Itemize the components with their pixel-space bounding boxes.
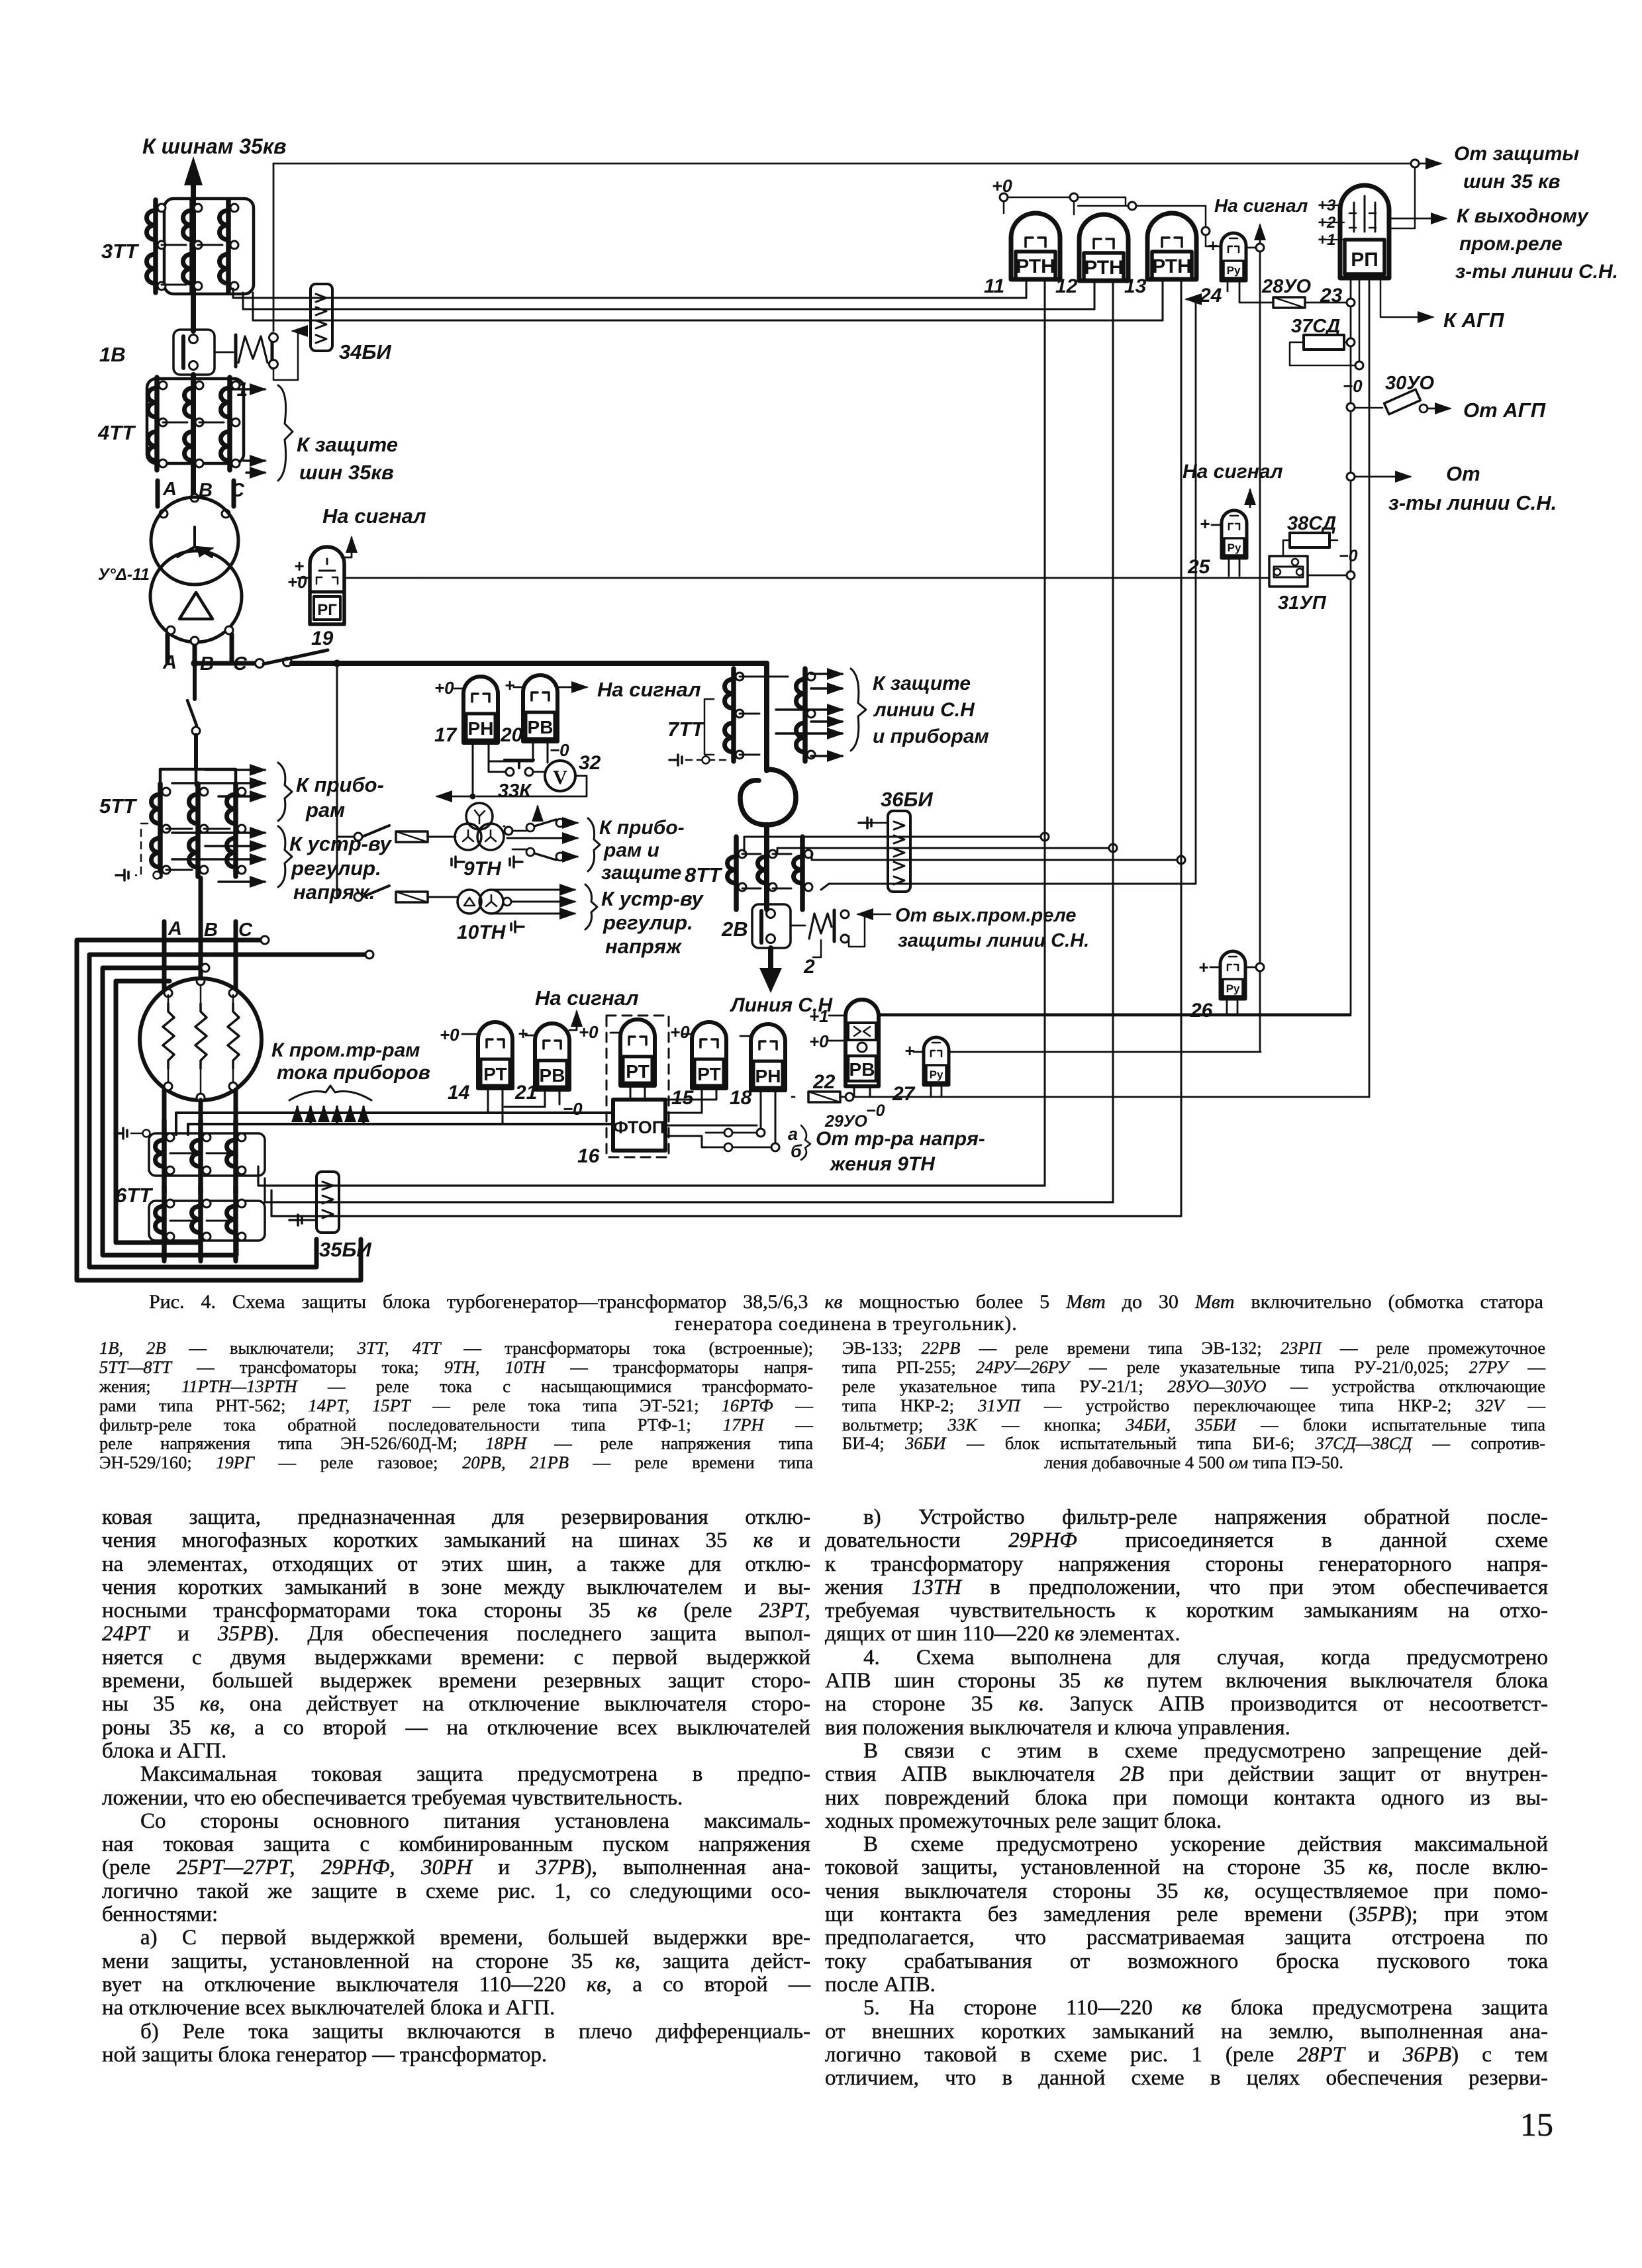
- phase stubs A B C above transformer: [158, 481, 234, 518]
- svg-text:РП: РП: [1351, 249, 1378, 271]
- svg-text:−0: −0: [1343, 376, 1363, 396]
- svg-text:+0: +0: [809, 1031, 829, 1051]
- ground of 5TT secondary (dashed): [116, 824, 161, 880]
- voltage transformer 10TN: [354, 886, 503, 914]
- current relay RTN (13): [1147, 213, 1196, 1216]
- svg-text:22: 22: [812, 1071, 836, 1093]
- indicating relay RU (25): [1212, 510, 1247, 576]
- body text right column: [825, 1506, 1548, 2090]
- svg-text:30УО: 30УО: [1385, 373, 1435, 394]
- svg-text:−0: −0: [563, 1099, 583, 1119]
- svg-text:В: В: [204, 920, 218, 941]
- svg-text:РТ: РТ: [483, 1064, 507, 1084]
- svg-text:К прибо-: К прибо-: [296, 773, 384, 796]
- wire: branch to voltage transformers 9TN/10TN: [334, 660, 341, 898]
- power transformer (star winding): [151, 497, 238, 585]
- intermediate relay RP (23): [1340, 185, 1389, 278]
- svg-text:К прибо-: К прибо-: [599, 817, 685, 839]
- wire: RU24/26 vertical lower part to relay 27 line: [1259, 971, 1261, 1052]
- current relay RTN (12): [1079, 214, 1128, 1202]
- feeder continues: [764, 825, 769, 908]
- wire: measuring circuit arrow left: [437, 796, 473, 798]
- svg-text:31УП: 31УП: [1278, 592, 1327, 614]
- svg-text:От: От: [1446, 462, 1480, 485]
- transformer 7TT: [725, 663, 816, 771]
- time relay RV (21): [505, 1012, 577, 1107]
- switching device 31UP: [1269, 556, 1355, 587]
- svg-text:А: А: [162, 479, 177, 500]
- test block 34BI: [311, 284, 332, 351]
- svg-text:15: 15: [671, 1087, 695, 1109]
- svg-text:На сигнал: На сигнал: [322, 504, 426, 528]
- svg-text:32: 32: [579, 752, 601, 774]
- svg-text:РТН: РТН: [1084, 257, 1124, 279]
- svg-text:С: С: [238, 920, 253, 941]
- wire: 35 kV feeder with arrow up: [184, 156, 203, 331]
- svg-text:+: +: [1200, 514, 1210, 534]
- svg-text:б: б: [791, 1141, 802, 1161]
- svg-text:РН: РН: [468, 718, 494, 739]
- page number: [1520, 2105, 1553, 2144]
- svg-text:К защите: К защите: [873, 673, 971, 694]
- ground at 7TT (dashed): [669, 755, 728, 765]
- current relay RT (of 16): [610, 1019, 655, 1100]
- button 33K: [505, 760, 544, 776]
- wire: +0 stub to RG: [298, 577, 310, 579]
- svg-text:+0: +0: [579, 1022, 599, 1042]
- node: Линия С.Н (arrow down): [759, 948, 782, 993]
- svg-text:20: 20: [500, 724, 523, 746]
- svg-text:3ТТ: 3ТТ: [101, 240, 140, 263]
- additional resistor 37SD: [1290, 335, 1363, 369]
- wire: return of RTN coils (4th vertical): [1186, 299, 1196, 884]
- svg-text:2: 2: [803, 956, 815, 978]
- wire: 3TT secondaries to test block 34BI (3 lines): [233, 289, 1163, 320]
- transformer 5TT: [152, 784, 246, 876]
- svg-text:7ТТ: 7ТТ: [667, 718, 706, 741]
- wires: 10TN to voltage regulation (arrows): [493, 884, 597, 929]
- svg-text:К АГП: К АГП: [1443, 308, 1504, 332]
- test block 36BI: [888, 811, 910, 892]
- voltage relay RN (18): [740, 1024, 785, 1151]
- svg-text:От тр-ра напря-: От тр-ра напря-: [816, 1128, 985, 1150]
- svg-text:13: 13: [1124, 275, 1147, 297]
- svg-text:+: +: [518, 1023, 528, 1043]
- wires: 5TT to voltage regulation device (arrows): [172, 826, 292, 887]
- svg-text:рам и: рам и: [603, 839, 659, 861]
- wire: generator voltage bus (thick) to 7TT: [292, 661, 767, 666]
- svg-text:8ТТ: 8ТТ: [685, 863, 723, 886]
- svg-text:От защиты: От защиты: [1454, 143, 1579, 165]
- svg-text:V: V: [553, 767, 567, 788]
- wires: 7TT to station-service line protection (arrows + brace): [776, 669, 866, 756]
- node: От тр-ра напряжения 9ТН (label): [801, 1125, 810, 1160]
- wire: RP contact to output relay (arrow): [1389, 218, 1446, 220]
- svg-text:РГ: РГ: [317, 601, 337, 619]
- phase lines to generator: [164, 878, 237, 997]
- svg-text:23: 23: [1320, 285, 1343, 307]
- current relay RTN (11): [1011, 213, 1060, 1186]
- wires: 6TT differential leads through 35BI to RTN relays (3 long lines): [258, 1166, 1181, 1216]
- junctions of loop with phase leads: [201, 936, 373, 972]
- svg-text:5ТТ: 5ТТ: [99, 794, 138, 818]
- wire: thin line from top bus down to breaker auxiliary contact: [273, 164, 275, 331]
- disconnect switch on generator voltage bus: [195, 650, 328, 668]
- wire: to C.H. line protection (arrow): [1347, 473, 1410, 481]
- svg-text:19: 19: [311, 628, 334, 649]
- svg-text:6ТТ: 6ТТ: [115, 1184, 154, 1207]
- svg-text:+0: +0: [440, 1025, 459, 1045]
- svg-text:ФТОП: ФТОП: [613, 1117, 665, 1137]
- trip coil of 1B: [215, 334, 278, 369]
- svg-text:На сигнал: На сигнал: [597, 678, 701, 701]
- svg-text:У°Δ-11: У°Δ-11: [98, 565, 150, 584]
- svg-text:9ТН: 9ТН: [463, 858, 502, 880]
- svg-text:з-ты линии С.Н.: з-ты линии С.Н.: [1455, 261, 1618, 283]
- svg-text:шин 35 кв: шин 35 кв: [1463, 171, 1560, 193]
- bracket at 7TT: [704, 699, 714, 755]
- wire: differential loop 3: [103, 968, 236, 1255]
- phase lines below generator: [164, 1090, 236, 1121]
- svg-text:рам: рам: [305, 798, 345, 822]
- svg-text:РТ: РТ: [697, 1064, 720, 1084]
- svg-text:+0: +0: [287, 572, 307, 592]
- wires: 8TT to test block 36BI (4 lines to RTN verticals): [744, 837, 1196, 890]
- svg-text:А: А: [162, 652, 177, 673]
- additional resistor 38SD: [1283, 533, 1337, 556]
- grounds at 9TN: [452, 857, 522, 867]
- svg-text:+: +: [904, 1041, 914, 1061]
- phase stubs A B C below transformer: [167, 626, 233, 662]
- svg-text:+0: +0: [434, 678, 454, 698]
- svg-text:+: +: [1198, 957, 1208, 977]
- svg-text:РВ: РВ: [540, 1065, 565, 1086]
- svg-text:12: 12: [1055, 275, 1078, 297]
- svg-text:10ТН: 10ТН: [457, 921, 507, 943]
- figure caption: [149, 1291, 1543, 1335]
- breaker 1B: [173, 330, 215, 375]
- svg-text:К устр-ву: К устр-ву: [289, 832, 393, 855]
- svg-text:38СД: 38СД: [1287, 513, 1336, 534]
- disconnecting device 28UO (fuse): [1273, 297, 1347, 308]
- wire: 1B contact to 34BI (arrow left): [273, 331, 298, 380]
- wires: RP relay legs: [879, 278, 1433, 1097]
- wire: +0 stub (22): [829, 1040, 845, 1042]
- svg-text:РТН: РТН: [1016, 256, 1055, 277]
- wire: +0 supply to RTN relays: [992, 176, 1221, 246]
- svg-text:регулир.: регулир.: [291, 857, 381, 880]
- wire: RU24 vertical to RU26: [1259, 252, 1261, 963]
- svg-text:К защите: К защите: [297, 433, 398, 456]
- transformer 6TT (upper row): [149, 1120, 265, 1207]
- gas relay RG (19): [310, 547, 344, 624]
- voltmeter V (32): [477, 761, 587, 796]
- svg-text:напряж.: напряж.: [293, 880, 375, 904]
- svg-text:К устр-ву: К устр-ву: [601, 887, 704, 910]
- svg-text:14: 14: [448, 1082, 470, 1104]
- svg-text:+0: +0: [670, 1022, 690, 1042]
- svg-text:К выходному: К выходному: [1457, 205, 1589, 227]
- wires: 5TT to instruments (arrows): [172, 763, 292, 821]
- svg-text:35БИ: 35БИ: [319, 1238, 371, 1261]
- svg-text:33К: 33К: [498, 780, 532, 802]
- wire: top signal line to 35 kV busbar protection: [273, 160, 1441, 228]
- svg-text:На сигнал: На сигнал: [1214, 195, 1308, 216]
- svg-text:24: 24: [1199, 285, 1222, 307]
- test block 35BI: [316, 1172, 339, 1233]
- ground at 10TN: [511, 921, 524, 932]
- disconnect blade on feeder below bus: [187, 663, 200, 769]
- svg-text:РН: РН: [755, 1066, 781, 1086]
- voltage transformer 9TN: [337, 803, 504, 850]
- svg-text:РТН: РТН: [1152, 256, 1192, 277]
- svg-text:18: 18: [730, 1087, 752, 1109]
- svg-text:11: 11: [984, 275, 1004, 297]
- wires: arrows to interposing CTs of instruments: [289, 1086, 371, 1124]
- svg-text:жения 9ТН: жения 9ТН: [829, 1153, 936, 1175]
- svg-text:тока приборов: тока приборов: [277, 1062, 430, 1084]
- svg-text:От вых.пром.реле: От вых.пром.реле: [895, 905, 1077, 926]
- wires: FTOP outputs: [665, 1125, 757, 1147]
- filter FTOP: [613, 1100, 665, 1151]
- svg-text:28УО: 28УО: [1261, 276, 1312, 297]
- main feeder between 1B and transformer: [191, 375, 196, 500]
- disconnecting device 29UO (fuse): [792, 1092, 1369, 1102]
- svg-text:16: 16: [577, 1145, 600, 1167]
- svg-text:4ТТ: 4ТТ: [97, 421, 136, 444]
- wire: 6TT secondaries to measuring bus (2 lines): [176, 1113, 613, 1135]
- svg-text:+: +: [1208, 236, 1218, 256]
- ground at 36BI: [859, 818, 888, 828]
- transformer 6TT (lower row): [149, 1186, 265, 1261]
- svg-text:29УО: 29УО: [824, 1112, 867, 1131]
- wire: +1 bus from 22 to right column: [829, 1015, 1351, 1017]
- breaker 2B: [752, 904, 791, 948]
- ground at 35BI: [289, 1215, 316, 1225]
- indicating relay RU (24): [1221, 233, 1273, 303]
- svg-text:напряж: напряж: [605, 935, 683, 958]
- svg-text:+1: +1: [809, 1006, 829, 1026]
- filter-relay unit 16 (dashed box): [606, 1016, 669, 1157]
- legend right column: [842, 1339, 1545, 1472]
- svg-text:А: А: [168, 918, 182, 939]
- current relay RT (15): [665, 1022, 726, 1113]
- indicating relay RU (27): [914, 1037, 1261, 1097]
- junctions of 36BI lines with RTN verticals: [1041, 833, 1185, 864]
- wire: RG signal arrow up: [342, 538, 352, 557]
- transformer 8TT: [728, 837, 813, 910]
- wire: differential loop 4: [116, 981, 200, 1243]
- svg-text:26: 26: [1190, 1000, 1213, 1021]
- time relay RV (20): [489, 675, 587, 763]
- svg-text:защите: защите: [601, 862, 681, 884]
- svg-text:+: +: [505, 675, 514, 695]
- svg-text:РТ: РТ: [626, 1061, 649, 1082]
- svg-text:защиты линии С.Н.: защиты линии С.Н.: [898, 930, 1089, 951]
- svg-text:пром.реле: пром.реле: [1459, 233, 1563, 255]
- time relay RV (22, two-element): [845, 1000, 879, 1097]
- svg-text:17: 17: [434, 724, 458, 746]
- svg-text:линии С.Н: линии С.Н: [873, 699, 975, 721]
- wire: transformer to generator bus + junction: [191, 639, 199, 667]
- svg-text:РВ: РВ: [528, 717, 554, 737]
- wires: 9TN to instruments and protection (switch + arrows): [504, 806, 600, 871]
- wire: differential loop (outer): [77, 940, 361, 1280]
- svg-text:25: 25: [1187, 556, 1211, 578]
- power transformer (delta winding): [150, 551, 242, 642]
- svg-text:регулир.: регулир.: [603, 911, 693, 934]
- svg-text:К шинам 35кв: К шинам 35кв: [142, 134, 286, 158]
- wires: RP coil taps: [1327, 205, 1347, 240]
- svg-text:От АГП: От АГП: [1463, 399, 1546, 422]
- transformer 5TT fan-out: [160, 769, 236, 785]
- transformer 3TT (built-in CTs): [147, 199, 254, 294]
- legend left column: [99, 1339, 813, 1472]
- svg-text:36БИ: 36БИ: [881, 788, 933, 811]
- wire: differential loop 2: [89, 955, 369, 1267]
- body text left column: [102, 1506, 810, 2067]
- current relay RT (14): [462, 1022, 512, 1124]
- svg-text:РВ: РВ: [849, 1059, 875, 1080]
- wires: a/b test links from 9TN voltage transformer: [706, 1129, 771, 1151]
- indicating relay RU (26): [1210, 951, 1264, 1014]
- svg-text:и приборам: и приборам: [873, 726, 989, 747]
- wires: 4TT secondaries to 35kV busbar protection (arrows + brace): [236, 385, 293, 481]
- svg-text:шин 35кв: шин 35кв: [299, 461, 394, 484]
- svg-text:37СД: 37СД: [1291, 316, 1340, 337]
- svg-text:−0: −0: [1339, 547, 1358, 565]
- generator G: [140, 978, 262, 1102]
- voltage relay RN (17): [454, 677, 506, 800]
- svg-text:−0: −0: [866, 1102, 885, 1120]
- svg-text:27: 27: [892, 1083, 916, 1105]
- wire: gas relay RG to switching device 31UP (long): [344, 577, 1269, 579]
- ground of 6TT upper: [115, 1128, 150, 1139]
- svg-text:На сигнал: На сигнал: [535, 986, 639, 1010]
- svg-text:1В: 1В: [99, 343, 126, 366]
- wire: from output relay of C.H. line protection (arrow): [858, 914, 891, 916]
- svg-text:К пром.тр-рам: К пром.тр-рам: [271, 1039, 420, 1061]
- svg-text:з-ты линии С.Н.: з-ты линии С.Н.: [1388, 491, 1557, 514]
- svg-text:2В: 2В: [721, 918, 748, 941]
- trip coil of 2B: [791, 910, 865, 957]
- svg-text:С: С: [230, 480, 245, 501]
- svg-text:На сигнал: На сигнал: [1183, 461, 1283, 483]
- disconnecting device 30UO: [1347, 389, 1450, 414]
- svg-text:21: 21: [514, 1082, 537, 1104]
- CT loop hook on feeder: [740, 769, 796, 825]
- svg-text:−0: −0: [550, 740, 569, 760]
- transformer 4TT (built-in CTs): [147, 377, 244, 470]
- svg-text:34БИ: 34БИ: [339, 340, 391, 363]
